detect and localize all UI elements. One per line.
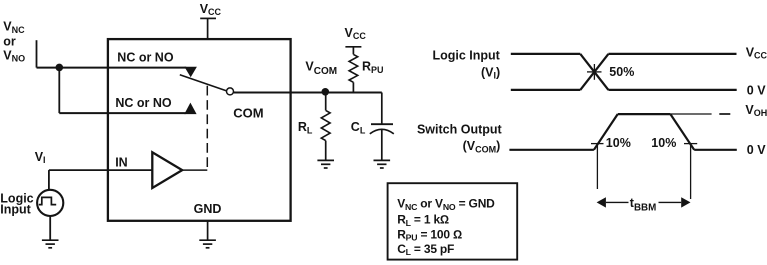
svg-text:0 V: 0 V <box>747 83 766 97</box>
svg-text:Logic Input: Logic Input <box>432 48 500 62</box>
svg-text:COM: COM <box>233 106 263 121</box>
svg-text:or: or <box>3 34 16 48</box>
svg-text:NC or NO: NC or NO <box>117 51 174 65</box>
svg-text:IN: IN <box>115 155 128 169</box>
svg-text:GND: GND <box>194 202 222 216</box>
svg-text:NC or NO: NC or NO <box>115 96 172 110</box>
svg-text:(VI): (VI) <box>481 66 500 81</box>
svg-text:0 V: 0 V <box>747 143 766 157</box>
svg-text:Input: Input <box>0 203 31 217</box>
svg-text:50%: 50% <box>609 65 634 79</box>
svg-text:10%: 10% <box>651 136 676 150</box>
svg-text:Switch Output: Switch Output <box>417 122 503 136</box>
svg-text:RL = 1 kΩ: RL = 1 kΩ <box>397 213 449 228</box>
svg-text:10%: 10% <box>606 136 631 150</box>
